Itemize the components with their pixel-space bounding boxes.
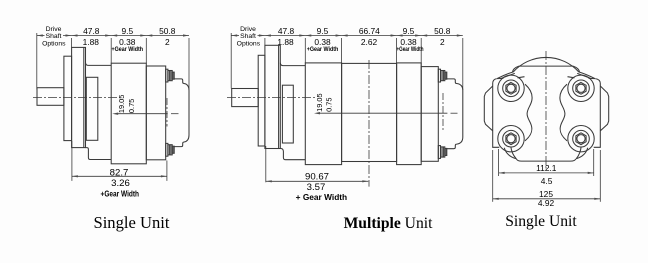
- svg-text:4.5: 4.5: [541, 176, 553, 186]
- flange left edge: [493, 79, 500, 148]
- gear housing: [111, 63, 146, 164]
- svg-text:Options: Options: [237, 41, 261, 48]
- rear plate: [146, 66, 165, 160]
- svg-text:9.5: 9.5: [121, 26, 133, 36]
- housing top dome: [513, 57, 579, 80]
- bottom port fitting: [166, 143, 175, 156]
- top dim extension lines: [72, 38, 190, 90]
- flange top edge segments: [497, 77, 504, 79]
- front plate mid: [265, 45, 280, 148]
- flange plate body: [493, 76, 601, 161]
- svg-text:4.92: 4.92: [538, 198, 555, 208]
- bottom dim 82.7: [72, 141, 167, 181]
- svg-text:90.67: 90.67: [305, 171, 329, 182]
- front view dim texts: [536, 163, 557, 208]
- gear housing 1: [305, 63, 341, 165]
- housing flat bottom: [516, 159, 576, 161]
- bottom right funnel leaf: [576, 148, 588, 159]
- svg-text:66.74: 66.74: [359, 26, 380, 36]
- svg-text:+Gear Width: +Gear Width: [101, 188, 140, 198]
- top dim extension lines mid: [265, 38, 463, 90]
- neck bottom edge mid: [280, 149, 305, 160]
- front plate inner face line: [83, 47, 85, 147]
- drive shaft options bracket: [36, 33, 38, 90]
- rear cover mid: [447, 79, 463, 149]
- neck top edge mid: [280, 63, 305, 66]
- bottom dim 90.67: [266, 146, 369, 182]
- svg-text:47.8: 47.8: [278, 26, 295, 36]
- waist curve right: [560, 84, 567, 141]
- svg-text:+Gear Width: +Gear Width: [112, 46, 144, 53]
- svg-text:0.75: 0.75: [324, 98, 333, 112]
- dim 9.5 / 0.38: [112, 26, 144, 53]
- boss pad bottom-left: [498, 126, 524, 152]
- rear cover: [174, 79, 189, 147]
- svg-text:2.62: 2.62: [361, 37, 378, 47]
- svg-text:1.88: 1.88: [83, 37, 100, 47]
- flange right edge: [594, 79, 601, 148]
- svg-text:Single Unit: Single Unit: [505, 213, 577, 230]
- gear housing 2: [397, 63, 422, 165]
- svg-text:2: 2: [440, 37, 445, 47]
- dome base transition right: [579, 72, 595, 79]
- top port fitting mid: [438, 69, 447, 82]
- boss pad top-left: [498, 75, 524, 101]
- front plate: [72, 47, 86, 147]
- svg-text:1.88: 1.88: [277, 37, 294, 47]
- dim 47.8 / 1.88: [83, 26, 100, 47]
- driven axis leader line: [116, 113, 168, 115]
- vertical centerline front view: [545, 51, 547, 169]
- right side bulge: [600, 86, 608, 131]
- driven axis crosshair vertical mid: [442, 93, 444, 131]
- drive shaft mid: [232, 89, 259, 107]
- main shaft centerline: [33, 97, 119, 99]
- dim 50.8 / 2: [159, 26, 176, 47]
- note drive shaft options mid: [237, 26, 261, 47]
- dim 112.1: [499, 149, 594, 176]
- svg-text:+ Gear Width: + Gear Width: [296, 192, 348, 202]
- neck top edge: [86, 63, 112, 66]
- top dimension line: [37, 35, 189, 37]
- svg-text:9.5: 9.5: [403, 26, 415, 36]
- svg-text:Shaft: Shaft: [46, 33, 62, 40]
- top port fitting: [166, 69, 175, 82]
- svg-text:50.8: 50.8: [159, 26, 176, 36]
- neck bottom edge: [86, 148, 112, 160]
- svg-text:47.8: 47.8: [83, 26, 100, 36]
- mounting flange: [64, 56, 72, 140]
- svg-text:9.5: 9.5: [317, 26, 329, 36]
- svg-text:Single Unit: Single Unit: [93, 213, 169, 232]
- bolt bottom-left: [503, 130, 520, 147]
- drive shaft options bracket mid: [230, 33, 232, 89]
- dome base transition left: [497, 72, 513, 79]
- front plate inner face line mid: [278, 45, 280, 148]
- bearing window mid: [282, 85, 293, 143]
- driven axis crosshair vertical: [166, 98, 168, 127]
- svg-text:Multiple Unit: Multiple Unit: [344, 215, 433, 232]
- rear plate mid: [421, 67, 438, 162]
- bearing window: [86, 77, 98, 140]
- svg-text:19.05: 19.05: [117, 95, 126, 114]
- main shaft centerline mid: [227, 97, 315, 99]
- svg-text:0.75: 0.75: [127, 99, 136, 113]
- boss pad top-right: [568, 75, 594, 101]
- housing face chord: [519, 65, 574, 67]
- top dimension line mid: [231, 35, 463, 37]
- left side bulge: [484, 86, 492, 131]
- pump vertical centerline: [368, 60, 370, 187]
- svg-text:+Gear Width: +Gear Width: [397, 46, 424, 53]
- svg-text:Shaft: Shaft: [240, 33, 256, 40]
- bolt top-right: [573, 80, 590, 97]
- driven axis leader line mid: [318, 112, 448, 114]
- bottom port fitting mid: [438, 146, 447, 159]
- svg-text:2: 2: [165, 37, 170, 47]
- svg-text:112.1: 112.1: [536, 163, 557, 173]
- svg-text:+Gear Width: +Gear Width: [307, 46, 339, 53]
- chord end sliver left: [513, 66, 519, 72]
- arrowheads top dims: [37, 34, 189, 36]
- svg-text:19.05: 19.05: [315, 93, 324, 112]
- dims mid top row: [277, 26, 450, 53]
- bolt bottom-right: [573, 130, 590, 147]
- boss pad bottom-right: [568, 126, 594, 152]
- dim 125: [493, 150, 601, 202]
- bottom left funnel leaf: [504, 148, 516, 159]
- arrowheads top dims mid: [231, 34, 463, 36]
- svg-text:50.8: 50.8: [434, 26, 451, 36]
- center section: [342, 63, 397, 161]
- note drive shaft options: [42, 26, 66, 47]
- bolt top-left: [503, 80, 520, 97]
- waist curve left: [525, 84, 532, 141]
- svg-text:82.7: 82.7: [110, 167, 129, 178]
- drive shaft: [37, 88, 64, 106]
- svg-text:Options: Options: [42, 41, 66, 48]
- mounting flange mid: [258, 55, 265, 146]
- chord end sliver right: [573, 66, 579, 72]
